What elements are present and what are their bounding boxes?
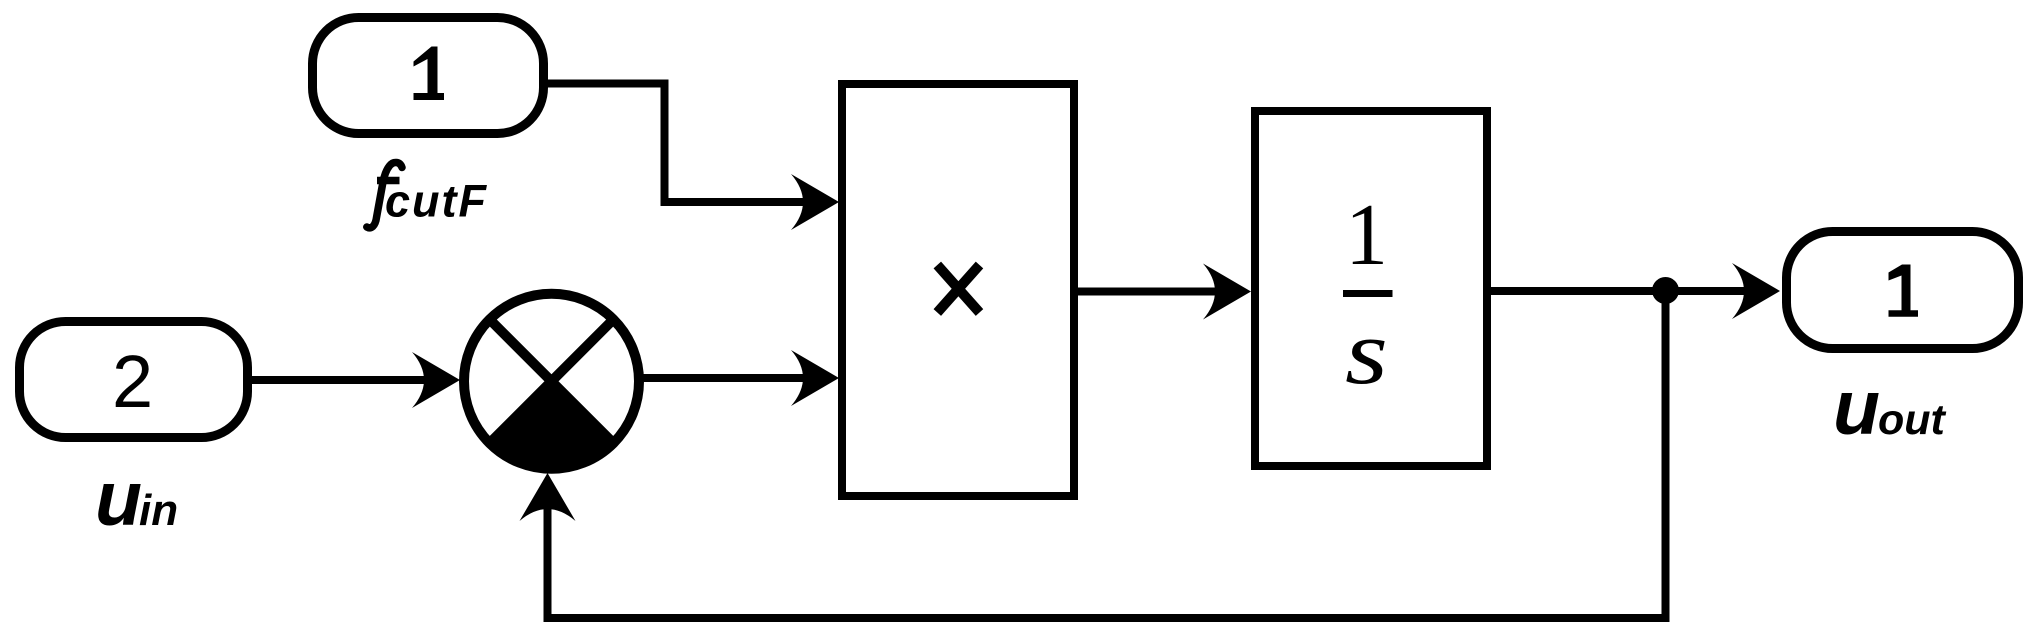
outport block 1 (u_out)	[1787, 232, 2019, 349]
arrowhead into outport	[1732, 263, 1780, 319]
fraction bar	[1343, 290, 1393, 297]
wire sum -> product	[637, 374, 814, 382]
multiply x mark	[937, 265, 979, 313]
arrowhead into sum left input	[412, 352, 460, 408]
label f_cutF	[367, 162, 402, 227]
sum junction circle	[464, 294, 639, 469]
sum diagonal X lines	[490, 319, 614, 443]
integrator block	[1255, 111, 1487, 466]
arrowhead into sum bottom input	[520, 473, 576, 521]
inport block 2 (u_in)	[20, 322, 248, 438]
arrowhead into product bottom input	[791, 350, 839, 406]
svg-text:u: u	[95, 456, 142, 542]
svg-text:out: out	[1878, 396, 1947, 444]
svg-text:2: 2	[112, 340, 153, 423]
wire inport2 -> sum	[248, 376, 440, 384]
wire product -> integrator	[1078, 288, 1226, 296]
arrowhead into product top input	[791, 174, 839, 230]
branch node dot	[1652, 277, 1679, 304]
digit 1 of outport	[1889, 265, 1919, 317]
product block	[842, 84, 1074, 496]
svg-text:1: 1	[1345, 186, 1388, 283]
feedback wire from node down, left, and up to sum	[548, 291, 1666, 619]
wire inport1 -> product (elbow)	[544, 84, 814, 203]
svg-text:s: s	[1345, 301, 1388, 403]
svg-text:u: u	[1833, 365, 1880, 451]
inport block 1 (f_cutF)	[313, 18, 544, 134]
sum bottom quadrant filled	[490, 381, 614, 469]
arrowhead into integrator	[1203, 264, 1251, 320]
digit 1 of inport 1	[414, 47, 445, 101]
svg-text:in: in	[139, 486, 178, 535]
wire integrator -> outport	[1491, 287, 1755, 295]
svg-text:cutF: cutF	[385, 176, 488, 227]
